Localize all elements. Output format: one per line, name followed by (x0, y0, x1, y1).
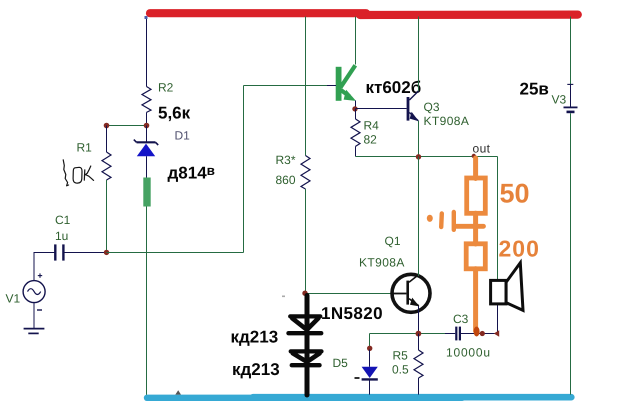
wire: Q3 emitter to out node (418, 121, 420, 157)
svg-text:C3: C3 (453, 312, 469, 326)
svg-text:10000u: 10000u (446, 346, 491, 360)
resistor R3 (301, 156, 310, 190)
junction dot right of orange tail (480, 331, 485, 336)
junction node: C1/R1/input (104, 250, 109, 255)
svg-text:Q3: Q3 (424, 100, 440, 114)
svg-text:D1: D1 (175, 129, 191, 143)
potentiometer sketch (orange marker) (441, 158, 485, 331)
junction node at R2/D1 (144, 123, 150, 129)
wire: R3 bottom to diode stack node (305, 189, 307, 294)
svg-text:KT908A: KT908A (424, 114, 470, 128)
wire: riser up (243, 86, 245, 253)
wire: rail to Q3 collector (418, 17, 420, 92)
svg-text:Q1: Q1 (385, 234, 401, 248)
speaker (491, 263, 523, 311)
orange tail blob (474, 327, 480, 337)
wire: rail to R2 top (146, 17, 148, 87)
zener diode D1 (д814в) (134, 140, 158, 157)
capacitor C3 (456, 327, 497, 341)
transistor Q1 (392, 274, 430, 312)
svg-text:R5: R5 (393, 349, 409, 363)
wire: out node down to Q1 collector (418, 157, 420, 277)
resistor R4 (351, 109, 360, 157)
svg-text:1u: 1u (55, 229, 68, 243)
svg-text:D5: D5 (333, 356, 349, 370)
diode кд213 pair (black marker) (289, 296, 322, 396)
wire: Q3 base (356, 108, 407, 110)
svg-text:V3: V3 (552, 93, 567, 107)
junction node at R1 top (104, 123, 110, 129)
wire: emitter node row (D5 to C3) (370, 333, 446, 335)
resistor R5 (414, 334, 423, 395)
junction node Q1 emitter / R5 (416, 331, 422, 337)
orange wiper dot (427, 215, 433, 222)
diode D5 (362, 334, 378, 395)
svg-text:out: out (473, 142, 491, 156)
svg-text:50: 50 (500, 179, 530, 209)
power rail V+ (red marker bar) (150, 13, 578, 15)
ground rail (blue marker bar) (147, 394, 571, 401)
svg-text:кд213: кд213 (231, 328, 279, 347)
handwritten 10к annotation (63, 160, 93, 186)
stray speck (282, 296, 285, 298)
wire: to base of output transistor (244, 85, 337, 87)
wire: node to D1 cathode (146, 126, 148, 143)
wire: out row (356, 156, 498, 158)
green marker bar over wire (143, 178, 150, 207)
stray triangle on ground rail (175, 390, 181, 394)
svg-text:1N5820: 1N5820 (321, 304, 383, 323)
handwritten minus at D5 (355, 377, 360, 379)
wire: out node down right side (497, 157, 499, 282)
wire: R2 bottom to node (146, 112, 148, 125)
svg-text:0.5: 0.5 (392, 363, 409, 377)
svg-text:кт602б: кт602б (366, 78, 422, 97)
svg-text:860: 860 (276, 173, 296, 187)
transistor кт602б (green marker K symbol) (339, 65, 356, 101)
wire: node to R1 (106, 126, 108, 153)
resistor R2 (142, 87, 151, 113)
transistor Q3 (407, 91, 419, 121)
wire: emitter to node (355, 101, 357, 109)
svg-text:C1: C1 (55, 213, 71, 227)
svg-text:R1: R1 (77, 141, 93, 155)
svg-text:кд213: кд213 (232, 360, 280, 379)
ground symbol (24, 329, 45, 334)
wire: input node to riser (107, 252, 244, 254)
battery V3 (564, 17, 578, 395)
junction node driver emitter / R4 / Q3 base (352, 106, 357, 111)
svg-text:R2: R2 (158, 81, 174, 95)
junction node out/Q3 emitter (416, 154, 421, 159)
wire: rail to driver collector (355, 17, 357, 65)
svg-text:KT908A: KT908A (359, 256, 405, 270)
svg-text:R3*: R3* (276, 153, 296, 167)
junction node C3 right / out riser (494, 330, 499, 336)
wire: Q1 emitter down to node (418, 306, 420, 334)
svg-text:V1: V1 (6, 292, 21, 306)
wire: base stub (327, 85, 336, 87)
wire: node row between R1 and R2/D1 (107, 125, 147, 127)
junction speck at orange tap (472, 154, 476, 158)
AC source V1 (23, 253, 45, 329)
svg-text:82: 82 (364, 133, 378, 147)
wire: diode stack top to Q1 base (306, 293, 393, 295)
capacitor C1 (34, 244, 107, 260)
svg-text:200: 200 (499, 236, 540, 262)
resistor R1 (102, 152, 111, 180)
node marker under rail (145, 16, 148, 19)
svg-text:5,6к: 5,6к (158, 104, 191, 123)
wire: R1 bottom to input node (106, 180, 108, 253)
wire: D1 anode down to ground rail (crosses input wire) (146, 156, 148, 180)
svg-text:25в: 25в (520, 80, 549, 99)
svg-text:R4: R4 (364, 119, 380, 133)
wire: rail down through R3 (305, 17, 307, 156)
junction node diode stack / R3 / base (302, 291, 307, 296)
